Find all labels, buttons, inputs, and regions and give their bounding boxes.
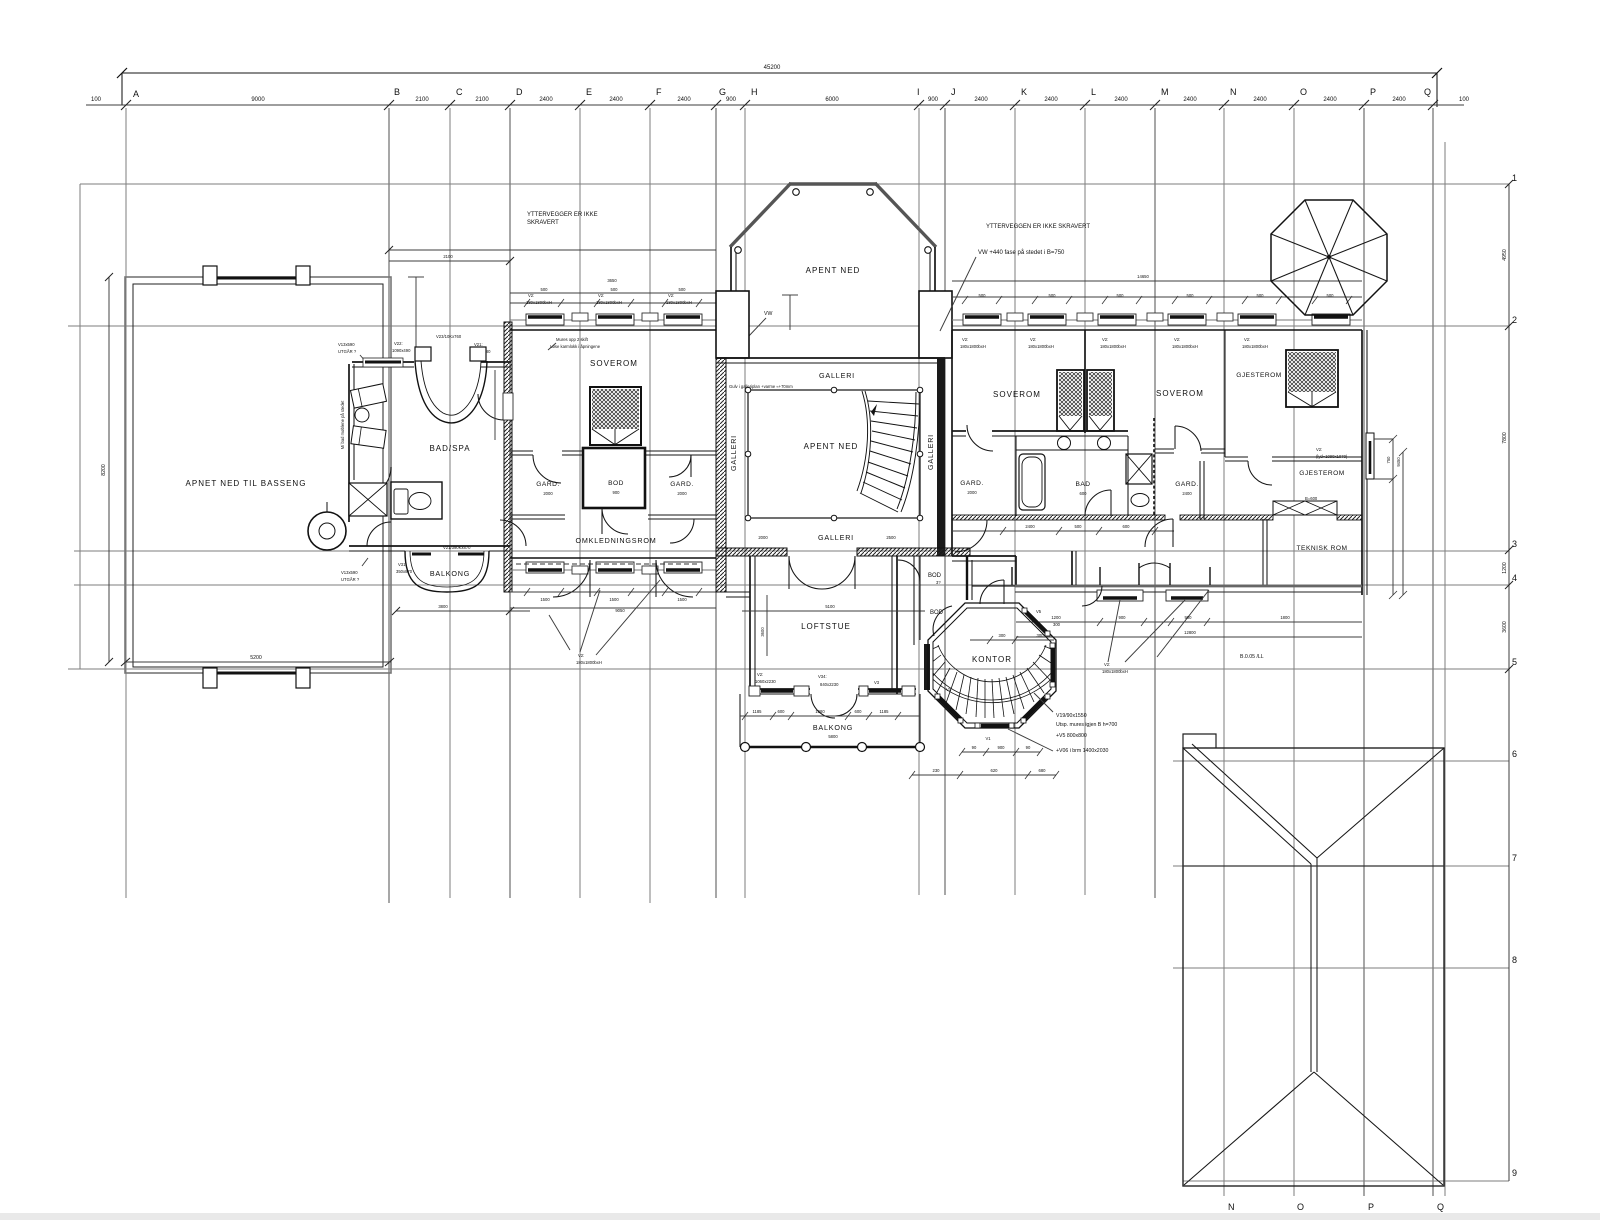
grid line H bbox=[744, 108, 746, 898]
svg-text:TEKNISK ROM: TEKNISK ROM bbox=[1297, 545, 1348, 552]
pool outer wall bbox=[125, 277, 391, 673]
left edge dim line bbox=[79, 184, 81, 669]
svg-text:+V5 800x800: +V5 800x800 bbox=[1056, 733, 1087, 739]
dim 2400 bbox=[609, 97, 623, 103]
svg-text:1500: 1500 bbox=[677, 597, 687, 602]
step walls west of loftstue bbox=[726, 556, 750, 597]
room label OMKLEDNINGSROM bbox=[575, 536, 656, 545]
label V21 390x870 bbox=[443, 545, 471, 550]
row number 3 bbox=[1512, 539, 1517, 549]
svg-text:(lyd=1090x1070): (lyd=1090x1070) bbox=[1316, 454, 1348, 459]
svg-text:500: 500 bbox=[979, 293, 987, 298]
bay wall block left bbox=[716, 291, 749, 358]
south facade right wing bbox=[972, 586, 1362, 592]
garage bottom V bbox=[1184, 1072, 1443, 1185]
svg-text:5800: 5800 bbox=[828, 734, 838, 739]
right dim label 1200 bbox=[1502, 562, 1508, 574]
room label KONTOR bbox=[972, 655, 1012, 664]
window bottom E-F bbox=[596, 562, 634, 573]
bay column circle right bbox=[925, 247, 932, 254]
svg-text:P: P bbox=[1368, 1202, 1374, 1212]
shower X box bbox=[349, 483, 387, 516]
window V22 in top wall bbox=[363, 358, 403, 367]
svg-text:GARD.: GARD. bbox=[670, 481, 693, 488]
horizontal grid line 6 bbox=[1173, 760, 1509, 762]
annotation mures opp bbox=[548, 337, 601, 350]
svg-text:2400: 2400 bbox=[1025, 524, 1035, 529]
label V2 bottom right wing bbox=[1102, 600, 1185, 674]
bottom letter Q bbox=[1437, 1202, 1444, 1212]
vertical dim left of wall D bbox=[494, 370, 496, 440]
svg-text:V2:: V2: bbox=[1174, 337, 1180, 342]
svg-text:B=600: B=600 bbox=[1305, 496, 1318, 501]
galleri left wall hatched bbox=[716, 358, 726, 592]
svg-text:V2:: V2: bbox=[757, 672, 763, 677]
label V21 780x1480 bbox=[472, 342, 491, 354]
room label APENT NED center bbox=[804, 442, 859, 451]
svg-text:M: M bbox=[1161, 87, 1169, 97]
svg-text:900: 900 bbox=[928, 97, 939, 103]
svg-text:V2:: V2: bbox=[1104, 662, 1110, 667]
toilet right wing bbox=[1131, 494, 1149, 507]
annotation v19 block bbox=[1008, 693, 1117, 754]
bottom band bump E bbox=[572, 566, 588, 574]
curved staircase galleri bbox=[857, 391, 920, 512]
svg-text:500: 500 bbox=[1049, 293, 1057, 298]
svg-text:YTTERVEGGER ER IKKE: YTTERVEGGER ER IKKE bbox=[527, 212, 598, 218]
dim 900 bbox=[928, 97, 939, 103]
svg-text:V2:: V2: bbox=[668, 293, 674, 298]
grid letter O bbox=[1300, 87, 1307, 97]
grid letter P bbox=[1370, 87, 1376, 97]
lounge chair 1 bbox=[350, 384, 386, 408]
pool bottom wall thick bar bbox=[216, 672, 297, 675]
pool inner edge bbox=[133, 284, 383, 667]
svg-text:GALLERI: GALLERI bbox=[729, 435, 738, 471]
svg-text:E: E bbox=[586, 87, 592, 97]
horizontal grid line 4 bbox=[74, 584, 1509, 586]
galleri top wall bbox=[716, 358, 945, 363]
svg-text:600: 600 bbox=[1123, 524, 1131, 529]
label B.0.05 bbox=[1157, 590, 1264, 660]
svg-text:2400: 2400 bbox=[1182, 491, 1192, 496]
grid letter L bbox=[1091, 87, 1096, 97]
balcony posts circles bbox=[741, 743, 925, 752]
svg-text:APNET NED TIL BASSENG: APNET NED TIL BASSENG bbox=[186, 479, 307, 488]
svg-text:2400: 2400 bbox=[1044, 97, 1058, 103]
row number 4 bbox=[1512, 573, 1517, 583]
galleri right wall solid bbox=[937, 358, 945, 556]
letter row ticks bbox=[121, 100, 1438, 110]
label V2 window 3 bbox=[666, 293, 692, 305]
double bed right wing bbox=[1057, 370, 1114, 431]
bed left wing bbox=[590, 387, 641, 445]
left pool dim line 8200 bbox=[101, 273, 113, 666]
svg-text:GALLERI: GALLERI bbox=[819, 371, 855, 380]
pool top wall thick bar bbox=[216, 277, 297, 280]
svg-text:2000: 2000 bbox=[677, 491, 687, 496]
svg-text:M/ bad møblene på stedet: M/ bad møblene på stedet bbox=[340, 400, 345, 449]
annotation VW +440 fase bbox=[940, 249, 1065, 331]
galleri bottom dims bbox=[758, 535, 896, 540]
inner square columns bbox=[745, 387, 923, 521]
bad/spa left wall bbox=[349, 364, 354, 522]
dim 2400 bbox=[1114, 97, 1128, 103]
kontor bottom dim row2 bbox=[909, 768, 1059, 779]
window top F-G bbox=[664, 314, 702, 325]
balcony dim row bbox=[740, 709, 920, 720]
gard1 walls bbox=[1015, 436, 1017, 516]
wall y515 right wing bbox=[952, 515, 1362, 520]
grid letter B bbox=[394, 87, 400, 97]
svg-text:500: 500 bbox=[679, 287, 687, 292]
svg-text:V2:: V2: bbox=[1102, 337, 1108, 342]
svg-text:GJESTEROM: GJESTEROM bbox=[1236, 372, 1282, 379]
band bumps right wing bbox=[1007, 313, 1233, 321]
svg-text:Løse karmlokk i åpningene: Løse karmlokk i åpningene bbox=[550, 344, 601, 349]
label GALLERI right rotated bbox=[926, 434, 935, 470]
svg-text:2100: 2100 bbox=[443, 254, 453, 259]
grid letter F bbox=[656, 87, 662, 97]
dim 100 left bbox=[91, 97, 102, 103]
room label GARD left1 bbox=[536, 481, 559, 496]
svg-text:300: 300 bbox=[1037, 633, 1045, 638]
window top I-K bbox=[963, 314, 1001, 325]
svg-text:GARD.: GARD. bbox=[1175, 481, 1198, 488]
grid line B bbox=[388, 108, 390, 903]
grid line O bbox=[1293, 108, 1295, 1196]
svg-text:Q: Q bbox=[1424, 87, 1431, 97]
room label SOVEROM right2 bbox=[1156, 389, 1204, 398]
grid line Q bbox=[1432, 108, 1434, 1196]
spiral stair at pool corner bbox=[308, 502, 346, 550]
svg-text:V2:: V2: bbox=[578, 653, 584, 658]
label VW left bbox=[747, 311, 772, 338]
bottom window band left wing bbox=[510, 558, 716, 570]
galleri bottom wall hatched with door gap bbox=[716, 548, 970, 556]
svg-text:3: 3 bbox=[1512, 539, 1517, 549]
annotation V13x590 UTGAR bottom bbox=[341, 558, 368, 582]
dim 2400 bbox=[677, 97, 691, 103]
row number 7 bbox=[1512, 853, 1517, 863]
grid line D bbox=[509, 108, 511, 898]
vertical note m bad moblene bbox=[340, 400, 345, 449]
svg-text:V3: V3 bbox=[874, 680, 880, 685]
interior wall y455 bbox=[510, 451, 716, 455]
kontor octagon walls bbox=[928, 603, 1056, 728]
svg-text:2: 2 bbox=[1512, 315, 1517, 325]
svg-text:8200: 8200 bbox=[101, 464, 107, 476]
bottom band bump F bbox=[642, 566, 658, 574]
label V2 window 2 bbox=[596, 293, 622, 305]
lounge chair 2 bbox=[351, 426, 386, 448]
svg-text:V22:: V22: bbox=[394, 341, 403, 346]
svg-text:V31:: V31: bbox=[398, 562, 407, 567]
svg-text:A: A bbox=[133, 89, 139, 99]
svg-text:180x1800bxH: 180x1800bxH bbox=[1100, 344, 1126, 349]
gard2 door arc bbox=[1175, 426, 1201, 451]
svg-text:LOFTSTUE: LOFTSTUE bbox=[801, 622, 851, 631]
spa tub bbox=[415, 347, 487, 423]
grid letter Q bbox=[1424, 87, 1431, 97]
svg-text:C: C bbox=[456, 87, 463, 97]
svg-text:5100: 5100 bbox=[825, 604, 835, 609]
svg-text:500: 500 bbox=[1327, 293, 1335, 298]
octagon window right bbox=[1050, 643, 1055, 687]
svg-text:VW +440 fase på stedet i B=750: VW +440 fase på stedet i B=750 bbox=[978, 249, 1065, 256]
grid letter A bbox=[133, 89, 139, 99]
svg-text:N: N bbox=[1230, 87, 1237, 97]
svg-text:UTGÅR ?: UTGÅR ? bbox=[341, 577, 360, 582]
svg-text:2000: 2000 bbox=[758, 535, 768, 540]
loftstue left wall bbox=[750, 556, 755, 694]
svg-text:GARD.: GARD. bbox=[536, 481, 559, 488]
bod passage walls bbox=[914, 556, 920, 645]
svg-text:6: 6 bbox=[1512, 749, 1517, 759]
svg-text:BALKONG: BALKONG bbox=[430, 569, 470, 578]
bay wall block right bbox=[919, 291, 952, 358]
octagon window bottom-right diag bbox=[1021, 694, 1050, 723]
wall x1200 bbox=[1200, 461, 1204, 519]
dim 2100 bbox=[475, 97, 489, 103]
svg-text:K: K bbox=[1021, 87, 1027, 97]
horizontal grid line 5 bbox=[68, 668, 1509, 670]
grid line F bbox=[649, 108, 651, 903]
garage roof diagonal right bbox=[1317, 748, 1444, 858]
svg-text:2100: 2100 bbox=[415, 97, 429, 103]
dim 2400 bbox=[1044, 97, 1058, 103]
svg-text:750: 750 bbox=[1386, 456, 1391, 464]
label V2 window 1 bbox=[526, 293, 552, 305]
svg-text:V2:: V2: bbox=[1030, 337, 1036, 342]
label B600 bbox=[1305, 496, 1318, 501]
window top P-Q bbox=[1312, 314, 1350, 325]
grid line P bbox=[1363, 108, 1365, 1196]
svg-text:900: 900 bbox=[1119, 615, 1127, 620]
svg-text:Q: Q bbox=[1437, 1202, 1444, 1212]
terrace door arc 2 bbox=[656, 560, 693, 597]
svg-text:SKRAVERT: SKRAVERT bbox=[527, 220, 559, 226]
horizontal grid line 8 bbox=[1173, 967, 1509, 969]
svg-text:APENT NED: APENT NED bbox=[804, 442, 859, 451]
bay column circle left bbox=[735, 247, 742, 254]
door opening arc in right wall bbox=[478, 393, 513, 420]
svg-text:2400: 2400 bbox=[1392, 97, 1406, 103]
BOD box bbox=[583, 448, 645, 508]
svg-text:180x1800bxH: 180x1800bxH bbox=[1028, 344, 1054, 349]
grid letter C bbox=[456, 87, 463, 97]
svg-text:180x1800bxH: 180x1800bxH bbox=[596, 300, 622, 305]
svg-text:350x870: 350x870 bbox=[396, 569, 413, 574]
svg-text:GJESTEROM: GJESTEROM bbox=[1299, 470, 1345, 477]
svg-text:1800: 1800 bbox=[1280, 615, 1290, 620]
svg-text:3600: 3600 bbox=[760, 627, 765, 637]
svg-text:600: 600 bbox=[1080, 491, 1088, 496]
kontor NE connection walls bbox=[1072, 551, 1076, 585]
svg-text:SOVEROM: SOVEROM bbox=[993, 390, 1041, 399]
room label APENT NED top bbox=[806, 266, 861, 275]
loftstue inner dim bbox=[742, 595, 925, 656]
grid letter K bbox=[1021, 87, 1027, 97]
svg-text:680: 680 bbox=[1039, 768, 1047, 773]
dim 900 bbox=[726, 97, 737, 103]
svg-text:9: 9 bbox=[1512, 1168, 1517, 1178]
svg-text:500: 500 bbox=[1187, 293, 1195, 298]
garage eave line dark bbox=[1183, 865, 1444, 867]
row number 8 bbox=[1512, 955, 1517, 965]
wall x1225 bbox=[1224, 330, 1226, 457]
svg-text:9450: 9450 bbox=[1396, 457, 1401, 467]
svg-text:45200: 45200 bbox=[764, 65, 781, 71]
svg-text:900: 900 bbox=[998, 745, 1006, 750]
svg-text:2400: 2400 bbox=[539, 97, 553, 103]
svg-text:V5: V5 bbox=[1036, 609, 1042, 614]
svg-text:1500: 1500 bbox=[540, 597, 550, 602]
dim 6000 bbox=[825, 97, 839, 103]
svg-text:APENT NED: APENT NED bbox=[806, 266, 861, 275]
svg-text:I: I bbox=[917, 87, 920, 97]
row number 1 bbox=[1512, 173, 1517, 183]
teknisk left wall bbox=[1263, 519, 1267, 585]
svg-text:SOVEROM: SOVEROM bbox=[1156, 389, 1204, 398]
label BOD 2 bbox=[930, 610, 944, 616]
right dimension chain line bbox=[1508, 184, 1510, 1181]
svg-text:SOVEROM: SOVEROM bbox=[590, 359, 638, 368]
svg-text:2400: 2400 bbox=[609, 97, 623, 103]
bottom wall right wing west part bbox=[952, 556, 1016, 561]
svg-text:100: 100 bbox=[91, 97, 102, 103]
kontor NE door arc bbox=[1082, 586, 1102, 606]
garage roof diagonal left double bbox=[1183, 744, 1317, 864]
svg-text:1060x2230: 1060x2230 bbox=[755, 679, 776, 684]
svg-text:V2:: V2: bbox=[1316, 447, 1322, 452]
balcony door arc bbox=[811, 694, 857, 718]
svg-text:GALLERI: GALLERI bbox=[818, 533, 854, 542]
bay left wall thin bbox=[731, 247, 736, 291]
svg-text:2500: 2500 bbox=[886, 535, 896, 540]
corridor door arc right bbox=[1145, 519, 1173, 547]
svg-text:O: O bbox=[1297, 1202, 1304, 1212]
dim 2400 bbox=[1183, 97, 1197, 103]
grid line I bbox=[918, 108, 920, 895]
svg-text:14650: 14650 bbox=[1137, 274, 1149, 279]
right dim label 4950 bbox=[1502, 249, 1508, 261]
balcony bulge arc bbox=[405, 551, 489, 592]
grid line A bbox=[125, 108, 127, 898]
svg-text:V13x590: V13x590 bbox=[341, 570, 358, 575]
svg-text:90: 90 bbox=[972, 745, 977, 750]
dim row below bottom band bbox=[510, 588, 716, 613]
svg-text:2400: 2400 bbox=[1183, 97, 1197, 103]
bad/spa top wall left segment bbox=[352, 362, 414, 367]
garage notch top-left bbox=[1183, 734, 1216, 748]
pool post bottom-right bbox=[296, 668, 310, 688]
bod door arc 2 bbox=[933, 606, 952, 636]
room label BALKONG center bbox=[813, 723, 853, 739]
dim rows below facade bbox=[1016, 615, 1362, 637]
dim rows above right band bbox=[952, 274, 1362, 304]
label V23/10Kx760 bbox=[436, 334, 462, 339]
BOD door arc bbox=[602, 508, 628, 534]
V2 labels right wing bbox=[960, 337, 1268, 349]
svg-text:500: 500 bbox=[1117, 293, 1125, 298]
svg-text:V21/390Kx870: V21/390Kx870 bbox=[443, 545, 471, 550]
top window band right wing bbox=[952, 320, 1362, 330]
svg-text:900: 900 bbox=[726, 97, 737, 103]
svg-text:BALKONG: BALKONG bbox=[813, 723, 853, 732]
svg-text:V2:: V2: bbox=[528, 293, 534, 298]
dim rows above band bbox=[510, 278, 716, 307]
svg-text:GARD.: GARD. bbox=[960, 480, 983, 487]
svg-text:1200: 1200 bbox=[1051, 615, 1061, 620]
bod right wall thick bbox=[967, 556, 972, 600]
svg-text:7800: 7800 bbox=[1502, 432, 1508, 444]
annotation ytterveggen right bbox=[986, 224, 1090, 230]
svg-text:V19/90x1550: V19/90x1550 bbox=[1056, 713, 1087, 719]
svg-text:180x1800bxH: 180x1800bxH bbox=[1172, 344, 1198, 349]
horizontal grid line 3 bbox=[74, 550, 1509, 552]
svg-text:6000: 6000 bbox=[825, 97, 839, 103]
svg-text:BAD: BAD bbox=[1075, 481, 1090, 488]
svg-text:2400: 2400 bbox=[1114, 97, 1128, 103]
svg-text:1090x490: 1090x490 bbox=[392, 348, 411, 353]
bed gjesterom bbox=[1286, 350, 1338, 407]
octagon tower roof bbox=[1271, 200, 1387, 315]
window bottom D-E bbox=[526, 562, 564, 573]
grid line C bbox=[449, 108, 451, 898]
svg-text:1185: 1185 bbox=[879, 709, 889, 714]
overall dimension line 45200 bbox=[117, 65, 1442, 107]
dim 2400 bbox=[1392, 97, 1406, 103]
top bay diagonal right bbox=[875, 183, 936, 247]
room label SOVEROM right1 bbox=[993, 390, 1041, 399]
door arc wc bbox=[367, 522, 391, 546]
leader lines to bottom windows bbox=[549, 580, 660, 655]
svg-text:2400: 2400 bbox=[1323, 97, 1337, 103]
svg-text:100: 100 bbox=[1459, 97, 1470, 103]
svg-text:600: 600 bbox=[855, 709, 863, 714]
svg-text:BOD: BOD bbox=[928, 573, 942, 579]
svg-text:V1: V1 bbox=[946, 687, 952, 692]
wall x1128 bbox=[1127, 436, 1129, 516]
label BOD 1 bbox=[928, 573, 942, 585]
label GALLERI top bbox=[819, 371, 855, 380]
corridor inner dim row bbox=[952, 524, 1174, 535]
bottom letter P bbox=[1368, 1202, 1374, 1212]
dim 2400 bbox=[1323, 97, 1337, 103]
pool post bottom-left bbox=[203, 668, 217, 688]
horizontal grid line 2 bbox=[68, 325, 1509, 327]
bay column circle top-left bbox=[793, 189, 800, 196]
room label TEKNISK ROM bbox=[1297, 545, 1348, 552]
grid letter M bbox=[1161, 87, 1169, 97]
svg-text:OMKLEDNINGSROM: OMKLEDNINGSROM bbox=[575, 536, 656, 545]
right wing right wall bbox=[1362, 330, 1367, 595]
svg-text:D: D bbox=[516, 87, 523, 97]
corridor arch bbox=[1139, 563, 1170, 578]
vertical dim at spa top bbox=[408, 277, 424, 360]
double door galleri south bbox=[789, 556, 855, 589]
svg-text:500: 500 bbox=[1075, 524, 1083, 529]
tiny note gulv i galleriplan bbox=[729, 384, 793, 389]
label V1 bottom bbox=[985, 736, 991, 741]
svg-text:V2:: V2: bbox=[598, 293, 604, 298]
svg-text:2000: 2000 bbox=[967, 490, 977, 495]
annotation YTTERVEGGER ER IKKE SKRAVERT bbox=[527, 212, 598, 226]
svg-text:180x1800bxH: 180x1800bxH bbox=[1242, 344, 1268, 349]
svg-text:H: H bbox=[751, 87, 758, 97]
facade window 2 bbox=[1166, 590, 1208, 601]
